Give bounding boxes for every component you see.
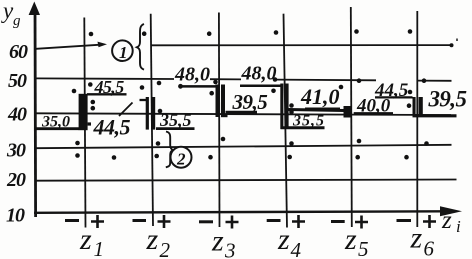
callout brace for 2: [166, 132, 173, 168]
svg-text:50: 50: [8, 70, 27, 92]
vertical gridline z6: [416, 11, 418, 227]
vertical gridline z1: [84, 18, 85, 228]
data line 35.5 at z2 right: [156, 127, 195, 130]
svg-text:z: z: [79, 223, 92, 256]
svg-text:6: 6: [424, 237, 435, 259]
svg-text:z: z: [146, 223, 159, 256]
step bar z1 small foot: [88, 122, 91, 125]
svg-text:35,0: 35,0: [41, 114, 70, 131]
svg-text:41,0: 41,0: [300, 84, 340, 109]
callout circle 2: [171, 147, 192, 168]
vertical gridline z2: [151, 14, 153, 226]
plus sign at z2: [158, 215, 171, 228]
step bar z4 (double stroke): [280, 84, 288, 130]
svg-text:48,0: 48,0: [241, 63, 277, 85]
data line 41.0 level z4 to z5: [289, 110, 345, 111]
svg-text:20: 20: [6, 169, 26, 191]
svg-text:35,5: 35,5: [292, 113, 325, 130]
data line 48.0 at z4 left: [240, 85, 281, 88]
svg-text:44,5: 44,5: [93, 115, 131, 140]
svg-text:z: z: [441, 207, 452, 234]
plus sign at z4: [292, 215, 305, 228]
data line 48.0 at z3 left: [182, 85, 216, 88]
step bar z5: [344, 106, 352, 118]
callout circle 1: [112, 40, 133, 61]
y-axis: [34, 8, 37, 217]
scatter dots: [72, 29, 454, 160]
minus sign at z4: [267, 219, 281, 222]
callout brace for 1: [137, 24, 144, 70]
svg-text:3: 3: [224, 239, 236, 259]
plus sign at z5: [355, 216, 368, 229]
gridline y=50 segment c: [277, 79, 376, 82]
step bar z1: [79, 94, 88, 130]
svg-text:4: 4: [291, 238, 302, 259]
data line 40.0 at z5 right: [354, 112, 393, 115]
step bar z2 (double stroke): [146, 97, 156, 130]
y-axis arrowhead: [29, 2, 40, 16]
step bar z3 (double stroke): [216, 85, 228, 118]
svg-text:39,5: 39,5: [428, 87, 467, 112]
svg-text:39,5: 39,5: [232, 90, 268, 114]
gridline y=60 right segment: [152, 44, 452, 46]
plus sign at z1: [91, 215, 104, 228]
vertical gridline z3: [218, 13, 221, 228]
svg-text:1: 1: [119, 43, 128, 62]
svg-text:60: 60: [9, 41, 28, 63]
data line 35.5 at z4 right: [281, 126, 325, 129]
gridline y=60 left segment with arrow to callout 1: [36, 45, 99, 49]
minus sign at z6: [397, 219, 412, 222]
svg-text:30: 30: [6, 140, 26, 162]
svg-text:48,0: 48,0: [174, 64, 210, 86]
minus sign at z1: [65, 219, 79, 222]
plus sign at z6: [423, 215, 436, 228]
leader diagonal for 44.5 label: [119, 103, 133, 117]
data line 35.0 at z1 left: [35, 127, 79, 130]
plus sign at z3: [226, 216, 239, 229]
minus sign at z2: [133, 219, 147, 222]
data line 39.5 at z3 right: [226, 111, 258, 114]
minus sign at z3: [199, 220, 213, 223]
svg-text:2: 2: [176, 150, 186, 169]
gridline y=40: [36, 113, 451, 115]
svg-text:i: i: [456, 217, 461, 236]
step bar z6 (double stroke): [413, 97, 423, 117]
svg-text:1: 1: [94, 237, 105, 259]
svg-text:z: z: [211, 225, 224, 258]
svg-text:45,5: 45,5: [94, 77, 125, 97]
svg-text:35,5: 35,5: [159, 110, 192, 130]
x-axis: [34, 211, 444, 213]
data line 45.5 at z1 right: [87, 93, 127, 95]
gridline y=50 segment d: [418, 80, 452, 82]
svg-text:40,0: 40,0: [356, 96, 391, 117]
data line 41.0 label underline: [305, 107, 340, 110]
data line 44.5 short at z2 left: [140, 99, 148, 101]
svg-text:z: z: [277, 223, 290, 256]
svg-text:2: 2: [160, 238, 171, 259]
gridline y=50 segment a: [36, 77, 174, 80]
tiny scan speck: [456, 39, 458, 42]
svg-text:z: z: [344, 223, 357, 256]
vertical gridline z4: [284, 14, 288, 228]
x-axis arrowhead: [440, 206, 462, 216]
svg-text:g: g: [13, 13, 21, 29]
gridline y=20: [36, 180, 457, 181]
gridline y=30: [36, 145, 452, 148]
svg-text:40: 40: [7, 104, 27, 126]
data line 39.5 at z6 right: [413, 114, 457, 117]
minus sign at z5: [331, 220, 345, 223]
gridline y=50 segment b: [210, 78, 241, 80]
svg-text:5: 5: [358, 237, 369, 259]
vertical gridline z5: [351, 7, 352, 227]
svg-text:10: 10: [6, 205, 25, 227]
leader arrowhead to callout 1: [98, 42, 108, 48]
data line 44.5 at z6 left: [375, 96, 413, 98]
svg-text:z: z: [410, 222, 423, 255]
